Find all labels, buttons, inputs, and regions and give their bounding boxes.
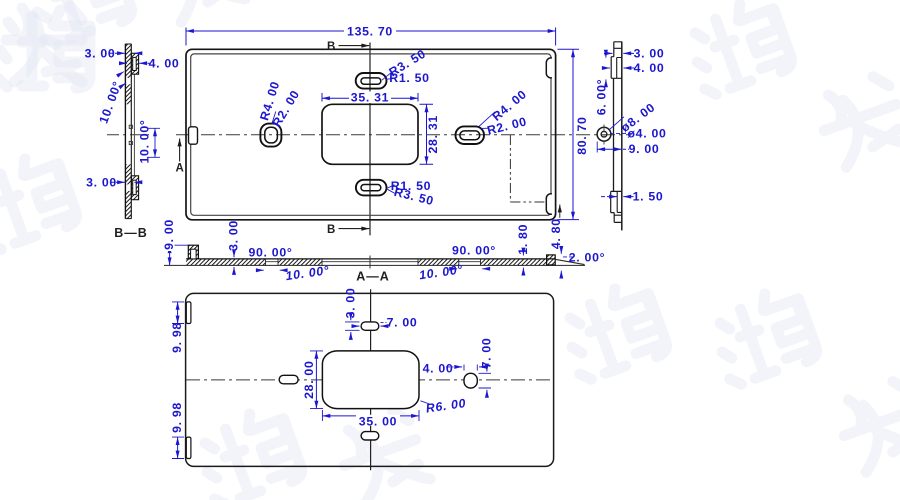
- dim 35.00: [322, 410, 419, 421]
- leader top slot labels: [382, 73, 394, 80]
- bottom slot outer: [356, 180, 387, 196]
- section line B-B vertical: [369, 43, 371, 236]
- leader R6.00: [421, 401, 430, 404]
- gap mid lines: [266, 261, 481, 263]
- 4.80 reference arrow: [559, 205, 561, 218]
- svg-text:10. 00°: 10. 00°: [285, 263, 331, 283]
- top center slot: [361, 322, 379, 330]
- center rectangular hole: [322, 351, 419, 409]
- dim 4.00: [602, 67, 610, 69]
- boss inner circle: [601, 131, 607, 137]
- svg-text:R2. 00: R2. 00: [486, 114, 529, 137]
- leader dia4: [610, 133, 632, 135]
- dim 4.00 right oval: [464, 365, 477, 371]
- dim 9.98 top: [172, 302, 184, 324]
- right oval hole outer: [456, 126, 485, 144]
- baseline: [164, 264, 585, 266]
- svg-text:R1. 50: R1. 50: [389, 71, 429, 85]
- top tab outline: [611, 48, 621, 78]
- svg-text:7. 00: 7. 00: [479, 338, 493, 369]
- svg-text:3. 00: 3. 00: [85, 46, 116, 60]
- bottom tab outline: [611, 191, 622, 212]
- watermark glyph blobs (approximate): [0, 10, 90, 88]
- dim 3.00: [233, 252, 235, 257]
- horizontal centerline: [186, 379, 553, 381]
- top tab (hatched): [131, 53, 138, 74]
- svg-text:35. 00: 35. 00: [359, 414, 397, 428]
- small tab marks seen through hole: [129, 125, 132, 128]
- dim 35.31 extension lines: [322, 93, 418, 102]
- strip end caps: [125, 44, 131, 219]
- leader left oval labels: [272, 112, 276, 124]
- text 9.00: [164, 218, 175, 251]
- dim 28.31 line: [426, 104, 428, 164]
- right edge notch top: [546, 58, 552, 78]
- svg-text:3. 00: 3. 00: [343, 288, 357, 319]
- svg-text:R6. 00: R6. 00: [425, 396, 467, 415]
- svg-text:B: B: [327, 224, 336, 236]
- top end cap: [614, 42, 622, 49]
- dim 4.80 arrows: [560, 249, 562, 254]
- dim 135.70 extension lines: [186, 28, 556, 46]
- left middle oval: [279, 375, 298, 384]
- section arrow A left: [179, 139, 181, 162]
- svg-text:90. 00°: 90. 00°: [452, 244, 496, 258]
- svg-text:4. 00: 4. 00: [634, 61, 665, 75]
- horizontal centerline through main view and side view: [176, 134, 631, 136]
- svg-text:3. 00: 3. 00: [634, 46, 665, 60]
- dim 2.00 deg dash: [563, 256, 573, 258]
- strip left face line: [124, 44, 126, 219]
- phantom line horizontal bottom-right: [510, 201, 546, 203]
- dim 3.00 top: [109, 52, 117, 54]
- left face middle: [613, 78, 615, 191]
- bottom slot inner: [361, 185, 381, 191]
- gap edge ticks: [266, 259, 481, 265]
- svg-text:9. 98: 9. 98: [170, 402, 184, 433]
- left tab (hatched): [188, 245, 198, 259]
- text 35.00: [356, 415, 400, 426]
- section arrow B bottom: [339, 228, 370, 230]
- boss vertical centerline: [603, 125, 605, 145]
- strip hatch segments: [186, 259, 265, 265]
- dim 6.00deg: [605, 52, 607, 58]
- strip right face line: [130, 44, 132, 219]
- svg-text:3. 00: 3. 00: [86, 175, 117, 189]
- dim 10.00 ticks: [147, 128, 160, 157]
- angle leader arrows: [117, 72, 124, 76]
- dim 35.31 line: [322, 97, 418, 99]
- main view inner wall outline: [191, 54, 551, 215]
- main plate right face: [621, 42, 623, 231]
- dim 28.00: [310, 351, 323, 409]
- text 35.31: [349, 92, 391, 104]
- section centerline tick: [369, 256, 371, 269]
- dim 90 left arrows: [257, 269, 264, 271]
- dim 3.00 top slot: [345, 322, 360, 330]
- dim 9.98 bottom: [172, 437, 184, 458]
- dim 80.70 extension lines: [558, 49, 580, 219]
- right tab (hatched): [547, 255, 556, 265]
- dim 28.31 extension lines: [420, 104, 434, 164]
- svg-text:1. 80: 1. 80: [516, 224, 530, 255]
- dim 80.70 line: [572, 49, 574, 219]
- svg-text:80. 70: 80. 70: [575, 116, 589, 154]
- svg-text:A—A: A—A: [356, 270, 390, 284]
- bottom center slot: [361, 432, 379, 440]
- main view outer outline: [186, 49, 556, 220]
- top tab inner slot line: [617, 58, 622, 79]
- center rectangular hole: [322, 104, 418, 164]
- dim 90 right arrows: [450, 268, 457, 270]
- 2 deg taper line: [555, 259, 584, 264]
- svg-text:7. 00: 7. 00: [387, 315, 418, 329]
- svg-text:6. 00°: 6. 00°: [595, 79, 609, 115]
- top slot inner: [361, 78, 381, 84]
- leader right oval labels: [479, 112, 495, 129]
- strip hatch segments: [126, 44, 132, 78]
- top tab inner slot: [133, 57, 137, 70]
- dim 135.70 line: [186, 30, 556, 32]
- left edge slot top: [186, 302, 191, 324]
- inner wall edge line: [133, 74, 135, 176]
- right edge notch bottom: [546, 194, 552, 215]
- dim 9.00: [170, 244, 188, 246]
- dim 3.00 bottom: [110, 181, 117, 183]
- dim 7.00 right oval: [479, 373, 492, 388]
- svg-text:4. 00: 4. 00: [423, 361, 454, 375]
- svg-text:ø4. 00: ø4. 00: [627, 127, 666, 141]
- dim 3.00: [604, 52, 612, 54]
- svg-text:2. 00°: 2. 00°: [569, 251, 605, 265]
- svg-text:4. 80: 4. 80: [549, 218, 563, 249]
- dim 1.80 arrows: [522, 251, 524, 256]
- svg-text:1. 50: 1. 50: [633, 190, 664, 204]
- vertical centerline (solid): [370, 289, 372, 470]
- left edge slot bottom: [186, 437, 191, 458]
- phantom line vertical bottom-right: [509, 135, 511, 202]
- svg-text:135. 70: 135. 70: [347, 25, 393, 39]
- strip top line: [186, 258, 555, 260]
- bottom zigzag step: [614, 213, 621, 223]
- dim 1.50: [601, 196, 609, 198]
- dim 9.00: [597, 148, 622, 150]
- bottom tab inner slot line: [617, 192, 621, 213]
- right oval hole inner: [460, 131, 480, 140]
- right middle oval (vertical): [464, 373, 477, 388]
- svg-text:35. 31: 35. 31: [351, 90, 389, 104]
- leader bottom slot labels: [387, 185, 396, 194]
- left oval hole outer: [260, 124, 281, 147]
- svg-text:4. 00: 4. 00: [149, 56, 180, 70]
- outer outline: [186, 293, 554, 466]
- dim 7.00 top slot: [353, 325, 360, 327]
- centerline: [107, 134, 152, 136]
- boss outer circle: [597, 127, 611, 141]
- text 135.70: [344, 25, 396, 37]
- top slot outer: [356, 73, 387, 89]
- left edge tab: [189, 127, 198, 144]
- left tab inner slot: [191, 249, 197, 259]
- svg-text:90. 00°: 90. 00°: [248, 246, 292, 260]
- svg-text:9. 00: 9. 00: [629, 142, 660, 156]
- left oval hole inner: [265, 127, 278, 143]
- section arrow B top: [339, 45, 370, 47]
- leader dia8: [609, 117, 624, 130]
- svg-text:28. 00: 28. 00: [302, 361, 316, 399]
- bottom tab inner slot: [133, 180, 137, 194]
- svg-text:10. 00°: 10. 00°: [137, 119, 151, 163]
- svg-text:3. 00: 3. 00: [227, 220, 241, 251]
- svg-text:B—B: B—B: [114, 226, 148, 240]
- svg-text:A: A: [176, 163, 185, 175]
- svg-text:9. 00: 9. 00: [162, 219, 176, 250]
- svg-text:9. 98: 9. 98: [170, 322, 184, 353]
- bottom tab (hatched): [131, 176, 138, 200]
- svg-text:B: B: [327, 41, 336, 53]
- svg-text:28. 31: 28. 31: [426, 115, 440, 153]
- svg-text:10. 00°: 10. 00°: [96, 79, 124, 125]
- dim 4.00 top: [119, 62, 127, 64]
